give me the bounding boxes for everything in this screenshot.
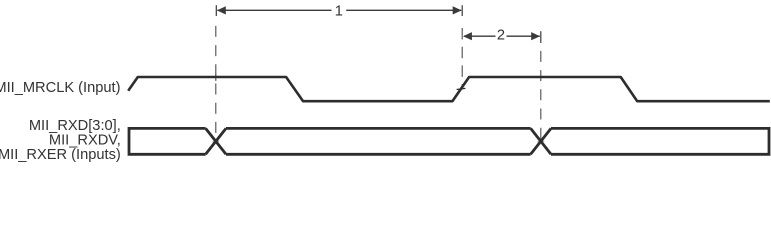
dashed reference line C (to second bus transition) [540, 51, 542, 141]
svg-text:MII_RXD[3:0],: MII_RXD[3:0], [29, 118, 121, 134]
dimension 1 extension tick right [461, 5, 463, 16]
MII_RXD bus waveform [129, 127, 769, 156]
dimension 2 extension tick right [540, 31, 542, 43]
measurement tick on clock rising edge [457, 88, 466, 89]
measurement tick on bus transition 2 [537, 140, 544, 143]
svg-text:1: 1 [335, 3, 343, 19]
dimension 1 arrowhead right [453, 6, 462, 14]
dimension 1 arrow line left segment [217, 9, 331, 11]
dimension 1 arrowhead left [217, 6, 226, 14]
MII_MRCLK clock waveform [128, 77, 770, 101]
svg-text:MII_RXDV,: MII_RXDV, [49, 133, 121, 149]
svg-text:MII_RXER (Inputs): MII_RXER (Inputs) [0, 147, 121, 163]
dimension 2 arrowhead right [531, 32, 540, 40]
svg-text:2: 2 [497, 28, 505, 44]
dimension 1 arrow line right segment [346, 9, 461, 11]
dimension 1 extension tick left [215, 5, 217, 16]
dimension 2 arrow line right segment [507, 35, 540, 37]
dimension 2 arrowhead left [463, 32, 472, 40]
measurement tick on bus transition 1 [212, 140, 219, 143]
dashed reference line B (to clock rising edge) [461, 28, 463, 89]
dash crossing mark on clock at line A [215, 74, 217, 81]
dimension 2 arrow line left segment [464, 35, 496, 37]
dashed reference line A (left, to first bus transition) [215, 26, 217, 141]
svg-text:MII_MRCLK (Input): MII_MRCLK (Input) [0, 80, 121, 96]
